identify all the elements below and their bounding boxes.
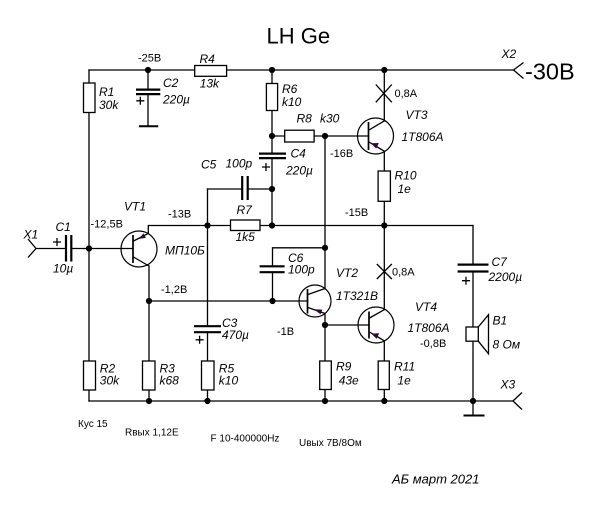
svg-text:X2: X2 (501, 47, 517, 61)
resistor R10 (378, 171, 390, 201)
wire ground stub at X3 (472, 401, 474, 415)
wire C5 right to C4 node (248, 188, 272, 190)
terminal X2 chevron (514, 63, 524, 79)
junction C5 / C4 (269, 186, 275, 192)
svg-text:43е: 43е (339, 373, 359, 387)
fuse 0,8A at VT4 collector (377, 264, 392, 279)
junction C6 / VT2 collector line (322, 245, 328, 251)
wire R9 branch (324, 325, 326, 401)
junction R6 top rail (269, 67, 275, 73)
svg-text:8 Ом: 8 Ом (493, 338, 521, 352)
capacitor C2 plates (136, 90, 160, 95)
resistor R2 (84, 361, 96, 390)
wire X1 to C1 (36, 248, 66, 250)
svg-text:1Т806А: 1Т806А (408, 321, 450, 335)
wire left bias divider vertical R1/R2 (88, 70, 90, 401)
svg-text:1Т806А: 1Т806А (402, 130, 444, 144)
svg-text:10µ: 10µ (53, 262, 73, 276)
svg-text:0,8А: 0,8А (392, 266, 415, 278)
capacitor C4 plates (259, 154, 286, 159)
junction VT2 emitter / R9 / VT4 base (322, 322, 328, 328)
svg-text:R9: R9 (336, 359, 352, 373)
wire R3 branch to bottom rail (148, 301, 150, 401)
wire VT3 emitter through R10 to -15B (383, 151, 385, 225)
svg-text:X3: X3 (500, 378, 516, 392)
wire C6 bottom to VT2 base wire (272, 273, 274, 301)
transistor VT2 (299, 285, 331, 317)
svg-text:R11: R11 (394, 359, 415, 373)
svg-text:-25В: -25В (138, 53, 161, 65)
svg-text:k10: k10 (219, 374, 239, 388)
junction R6 / R8 / C4 (269, 133, 275, 139)
plus sign C3 (196, 336, 204, 344)
wire VT1 bottom to node -1,2B (148, 266, 150, 301)
terminal X3 chevron (513, 393, 522, 410)
wire -15B down through fuse to VT4 collector (383, 226, 385, 310)
junction R8 / VT3 base (322, 133, 328, 139)
svg-text:C5: C5 (201, 158, 217, 172)
resistor R9 (320, 361, 332, 390)
junction R11 bottom rail (381, 398, 387, 404)
transistor VT1 (121, 231, 157, 267)
svg-text:МП10Б: МП10Б (165, 244, 205, 258)
wire C3 to R5 (207, 333, 209, 401)
svg-text:АБ март 2021: АБ март 2021 (391, 472, 479, 487)
wire R6/C4 vertical x=272 (271, 70, 273, 153)
svg-text:0,8А: 0,8А (395, 88, 418, 100)
svg-text:R8: R8 (297, 112, 313, 126)
svg-text:470µ: 470µ (222, 328, 249, 342)
junction speaker line bottom rail (470, 398, 476, 404)
svg-text:C1: C1 (56, 220, 71, 234)
capacitor C3 plates (194, 326, 221, 332)
junction R7 right / C4 branch (269, 222, 275, 228)
svg-text:R4: R4 (200, 52, 216, 66)
svg-text:R7: R7 (237, 203, 254, 217)
svg-text:F 10-400000Hz: F 10-400000Hz (211, 434, 280, 445)
junction R3 bottom rail (146, 398, 152, 404)
resistor R8 (285, 130, 314, 142)
svg-text:1Т321В: 1Т321В (336, 289, 378, 303)
capacitor C1 plates (66, 235, 71, 262)
plus sign C4 (262, 163, 270, 171)
svg-text:-13В: -13В (168, 209, 191, 221)
svg-text:В1: В1 (493, 314, 508, 328)
wire bottom common rail (89, 400, 513, 402)
svg-text:k30: k30 (320, 112, 340, 126)
svg-text:220µ: 220µ (162, 92, 190, 106)
terminal X1 chevron (28, 239, 36, 258)
svg-text:C2: C2 (163, 76, 179, 90)
svg-text:1е: 1е (397, 373, 411, 387)
wire C5 left horizontal (208, 188, 243, 190)
wire node -15B horizontal R7 to output corner (260, 225, 473, 227)
svg-text:-12,5В: -12,5В (91, 218, 123, 230)
svg-text:30k: 30k (100, 374, 120, 388)
junction VT1 emitter / R3 (146, 298, 152, 304)
junction R5 bottom rail (204, 398, 210, 404)
resistor R3 (143, 361, 156, 390)
svg-text:30k: 30k (99, 98, 119, 112)
wire VT1 top to node -13B (148, 226, 230, 234)
resistor R11 (378, 361, 389, 390)
wire node -1B to VT4 base (325, 324, 369, 326)
svg-text:-30В: -30В (525, 59, 575, 85)
svg-text:Кус 15: Кус 15 (78, 419, 108, 430)
wire speaker to bottom rail (472, 341, 474, 401)
wire C2 bottom to ground bar (147, 95, 149, 126)
resistor R7 (231, 220, 261, 231)
svg-text:100p: 100p (226, 156, 253, 170)
svg-text:Rвых 1,12Е: Rвых 1,12Е (125, 428, 179, 439)
wire C1 to VT1 base (71, 248, 133, 250)
svg-text:X1: X1 (23, 228, 39, 242)
speaker B1 (466, 315, 489, 354)
svg-text:VT2: VT2 (336, 266, 358, 280)
svg-text:1k5: 1k5 (236, 230, 256, 244)
svg-text:C7: C7 (492, 255, 509, 269)
svg-text:R10: R10 (395, 169, 417, 183)
svg-text:VT1: VT1 (124, 200, 146, 214)
wire C6 top to x=325 (273, 248, 326, 266)
junction C1 / R1 / R2 / VT1 base (86, 245, 92, 251)
junction R9 bottom rail (322, 398, 328, 404)
capacitor C5 plates (242, 176, 248, 200)
svg-text:VT3: VT3 (406, 108, 428, 122)
svg-text:-1В: -1В (277, 326, 294, 338)
svg-text:k10: k10 (282, 95, 302, 109)
transistor VT4 (358, 307, 394, 343)
junction VT3 collector rail (381, 67, 387, 73)
fuse 0,8A at VT3 collector (376, 85, 392, 103)
svg-text:-1,2В: -1,2В (161, 284, 187, 296)
wire node -1,2B horizontal to VT2 base (149, 300, 308, 302)
plus sign C2 (136, 97, 144, 105)
wire C2 branch from rail (147, 70, 149, 89)
svg-text:k68: k68 (160, 374, 180, 388)
svg-text:-15В: -15В (345, 207, 368, 219)
svg-text:220µ: 220µ (285, 163, 313, 177)
svg-text:2200µ: 2200µ (488, 270, 523, 284)
junction node -13B / R7 / C5 / C3 (204, 222, 210, 228)
resistor R1 (84, 83, 96, 113)
wire VT2 emitter down to node -1B (324, 314, 326, 326)
plus sign C7 (462, 277, 470, 285)
svg-text:-0,8В: -0,8В (420, 338, 446, 350)
wire C4 bottom to R7 right (271, 159, 273, 226)
wire R8 row to VT3 base (272, 135, 369, 137)
svg-text:Uвых 7В/8Ом: Uвых 7В/8Ом (299, 438, 362, 449)
svg-text:R1: R1 (99, 85, 114, 99)
capacitor C6 plates (260, 266, 285, 272)
resistor R5 (202, 361, 215, 390)
junction C6 bottom / base wire (269, 298, 275, 304)
transistor VT3 (358, 118, 394, 154)
svg-text:-16В: -16В (330, 148, 353, 160)
wire C5/C3 branch vertical x=207 (207, 189, 209, 325)
wire VT4 emitter through R11 to bottom rail (383, 341, 385, 401)
svg-text:VT4: VT4 (415, 300, 437, 314)
svg-text:C4: C4 (291, 147, 307, 161)
wire VT3 base node down to VT2 collector (324, 136, 326, 289)
wire output vertical to C7 (472, 226, 474, 265)
wire top -30V rail (89, 69, 513, 71)
svg-text:1е: 1е (398, 182, 412, 196)
wire VT3 collector up to rail (383, 70, 385, 121)
wire C7 to speaker B1 (472, 273, 474, 328)
svg-text:LH Ge: LH Ge (267, 24, 331, 49)
resistor R6 (266, 84, 277, 111)
plus sign C1 (53, 238, 61, 246)
ground under X3 (464, 415, 485, 417)
svg-text:13k: 13k (200, 77, 220, 91)
capacitor C7 plates (458, 265, 489, 272)
svg-text:100p: 100p (288, 262, 315, 276)
resistor R4 (195, 66, 227, 77)
junction R10 / -15B node (381, 222, 387, 228)
junction C2 top rail (145, 67, 151, 73)
ground bar under C2 (139, 125, 158, 127)
